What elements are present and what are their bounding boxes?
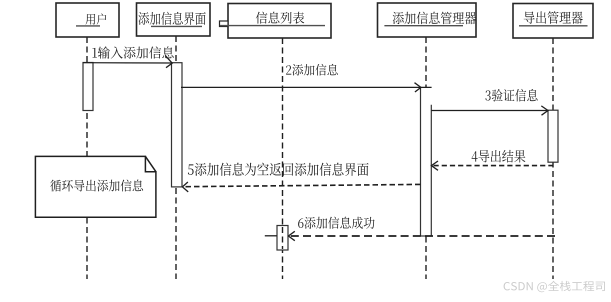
note text 循环导出添加信息 bbox=[50, 180, 143, 192]
object name text 导出管理器 bbox=[524, 11, 583, 24]
message 5 dashed line 添加信息为空返回添加信息界面 bbox=[182, 182, 420, 192]
object name text 信息列表 bbox=[256, 12, 304, 24]
lifeline of object 用户 bbox=[86, 37, 88, 279]
object box 信息列表 bbox=[228, 4, 331, 39]
object box 导出管理器 bbox=[513, 4, 593, 39]
object box 添加信息界面 bbox=[137, 3, 211, 36]
activation bar on 用户 bbox=[83, 63, 93, 111]
activation bar on 添加信息界面 bbox=[172, 63, 183, 187]
note box 循环导出添加信息 bbox=[35, 156, 155, 217]
message 3 line 验证信息 bbox=[431, 106, 548, 115]
message 1 label 1输入添加信息 bbox=[92, 46, 173, 58]
object name text 添加信息界面 bbox=[139, 12, 206, 25]
message 4 label 4导出结果 bbox=[472, 150, 526, 163]
message 2 line 添加信息 bbox=[181, 83, 432, 92]
object name text 添加信息管理器 bbox=[393, 12, 476, 25]
name underline 添加信息界面 bbox=[151, 25, 202, 27]
message 6 dashed line 添加信息成功 bbox=[265, 231, 555, 240]
name underline 用户 bbox=[76, 25, 100, 27]
message 3 label 3验证信息 bbox=[485, 89, 537, 102]
activation bar on 信息列表 bbox=[277, 226, 288, 251]
object name text 用户 bbox=[86, 13, 107, 24]
object box 添加信息管理器 bbox=[378, 3, 477, 37]
message 5 label 5添加信息为空返回添加信息界面 bbox=[188, 163, 369, 176]
lifeline of object 导出管理器 bbox=[552, 38, 554, 279]
activation bar on 添加信息管理器 bbox=[421, 87, 432, 236]
message 4 dashed line 导出结果 bbox=[431, 161, 553, 170]
lifeline of object 添加信息界面 bbox=[175, 36, 177, 279]
name underline 添加信息管理器 bbox=[384, 25, 463, 27]
message 6 label 6添加信息成功 bbox=[298, 217, 374, 229]
name underline 信息列表 bbox=[220, 25, 325, 27]
name underline 导出管理器 bbox=[519, 25, 588, 27]
activation bar on 导出管理器 bbox=[548, 110, 558, 162]
lifeline of object 添加信息管理器 bbox=[425, 37, 427, 279]
object box 用户 bbox=[56, 3, 119, 37]
lifeline of object 信息列表 bbox=[282, 38, 284, 279]
message 2 label 2添加信息 bbox=[286, 64, 338, 76]
watermark CSDN @全栈工程司 bbox=[504, 281, 605, 292]
message 1 line 输入添加信息 bbox=[83, 56, 172, 68]
multiobject tab on 信息列表 bbox=[220, 21, 229, 27]
